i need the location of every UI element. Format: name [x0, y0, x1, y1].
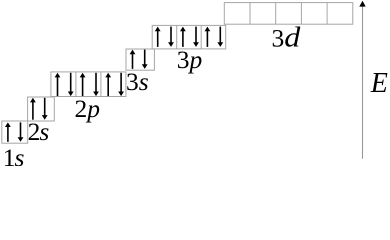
orbital boxes 3d [224, 3, 352, 25]
svg-text:3p: 3p [177, 45, 203, 74]
svg-text:2s: 2s [28, 117, 50, 146]
electron pair arrows 3p cell 2 [180, 27, 199, 47]
electron pair arrows 3p cell 1 [155, 27, 174, 47]
svg-text:2p: 2p [75, 94, 101, 123]
electron pair arrows 1s cell 1 [5, 122, 23, 141]
svg-text:3d: 3d [272, 23, 302, 54]
electron pair arrows 2s cell 1 [30, 98, 48, 120]
orbital boxes 2p [51, 72, 126, 97]
svg-text:1s: 1s [3, 143, 25, 166]
electron pair arrows 2p cell 3 [105, 73, 124, 96]
energy axis arrow [359, 1, 365, 159]
electron pair arrows 2p cell 1 [55, 73, 74, 96]
electron pair arrows 3s cell 1 [130, 50, 148, 69]
electron pair arrows 3p cell 3 [205, 27, 224, 47]
orbital boxes 3s [126, 49, 154, 70]
svg-text:3s: 3s [126, 67, 149, 96]
orbital boxes 3p [152, 25, 226, 49]
orbital boxes 2s [28, 97, 55, 121]
svg-text:E: E [370, 68, 388, 99]
electron pair arrows 2p cell 2 [80, 73, 99, 96]
orbital boxes 1s [2, 121, 28, 143]
